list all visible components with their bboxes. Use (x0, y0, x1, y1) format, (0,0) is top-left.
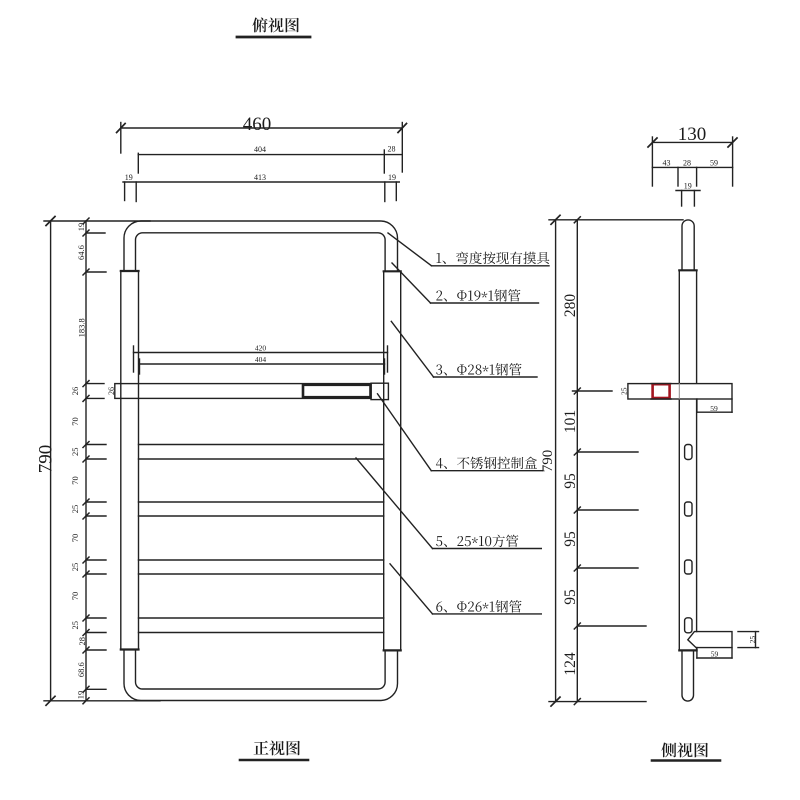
callout 4 leader (378, 394, 432, 471)
dim 413 text (254, 173, 266, 182)
dim 460 right slash arrow (398, 124, 407, 133)
side view bottom joint cap (679, 649, 696, 651)
svg-text:19: 19 (125, 173, 133, 182)
svg-text:183.8: 183.8 (77, 318, 87, 337)
side chain ticks (573, 391, 647, 626)
tick 19 left inner (135, 182, 137, 202)
callout 2 text (436, 289, 520, 301)
side dim 130 text (678, 124, 707, 145)
callout 6 leader (390, 564, 433, 614)
title top view 俯视图 (252, 17, 299, 32)
side bracket dim 25 vertical line (755, 632, 757, 648)
left bottom extension line (44, 700, 160, 702)
side view wide tube right line lower (696, 648, 698, 651)
side slot rung 2 (685, 445, 692, 460)
svg-text:59: 59 (711, 650, 719, 659)
side dim 59 under bar text (710, 404, 718, 413)
front view frame outer tube outline bottom (124, 650, 398, 701)
callout 5 text (436, 535, 518, 548)
svg-text:460: 460 (243, 114, 272, 135)
rung 4 bottom line (139, 573, 384, 575)
left 790 top slash arrow (46, 217, 55, 226)
side view thin tube bottom with rounded cap (682, 650, 694, 701)
front left tube phi28 left line (120, 271, 122, 650)
left top extension line (44, 220, 150, 222)
dim 19 right text (388, 173, 396, 182)
dim 19 left text (125, 173, 133, 182)
svg-text:404: 404 (254, 145, 266, 154)
front left tube top joint cap (121, 270, 139, 272)
svg-text:28: 28 (77, 637, 87, 646)
title front view 正视图 (254, 741, 300, 756)
side bracket dim 59 left vertical (696, 648, 698, 658)
front view frame inner tube outline top (136, 233, 386, 271)
side dim 130 right slash (728, 138, 737, 147)
callout 5 underline (433, 548, 542, 550)
control box front view (303, 385, 371, 397)
svg-text:19: 19 (76, 223, 86, 232)
dim 420 left tick (133, 346, 135, 372)
callout 3 underline (434, 376, 538, 378)
svg-text:95: 95 (562, 589, 579, 605)
title underline side (652, 759, 720, 762)
side view bar square tube (628, 384, 732, 399)
dim 404 inner line (140, 363, 385, 365)
side dim 19 text (684, 182, 692, 191)
svg-text:64.6: 64.6 (76, 245, 86, 260)
rung 4 top line (139, 559, 384, 561)
side dim 130 right extension (732, 137, 734, 186)
svg-text:19: 19 (684, 182, 692, 191)
side dim 59 text (710, 159, 718, 168)
svg-text:95: 95 (562, 473, 579, 489)
callout 2 underline (431, 302, 539, 304)
svg-text:101: 101 (562, 410, 579, 433)
tick 19 right inner (384, 182, 386, 202)
dim 404 left extension (137, 153, 139, 173)
side view top joint cap (679, 269, 696, 271)
callout 2 leader (392, 263, 431, 303)
side slot rung 5 (685, 618, 692, 633)
side view wide tube left line (678, 270, 680, 650)
bar right end cap (371, 383, 388, 399)
rung 2 bottom line (139, 458, 384, 460)
dim 420 line (134, 352, 388, 354)
left chain line (85, 221, 87, 701)
svg-text:25: 25 (70, 448, 80, 457)
dim 460 left slash arrow (117, 124, 126, 133)
front view frame outer tube outline top (124, 221, 398, 271)
side dim 28 text (683, 159, 691, 168)
rung 5 bottom line (139, 632, 384, 634)
dim 404 inner text (255, 355, 267, 364)
dim 26 bar label (107, 387, 116, 395)
bar top line over red box (651, 383, 671, 385)
dim 460 text (243, 114, 272, 135)
svg-text:404: 404 (255, 355, 267, 364)
title underline top (237, 36, 310, 39)
rung 3 top line (139, 501, 384, 503)
side bracket dim 59 bottom line (697, 657, 732, 659)
tick 19 left outer (124, 182, 126, 201)
callout 1 text (436, 252, 549, 265)
side 790 top slash arrow (551, 215, 560, 224)
callout 1 underline (432, 265, 550, 267)
side bracket dim 25 extension bottom (738, 647, 759, 649)
side bracket dim 59 text (711, 650, 719, 659)
side dim 19 line (676, 190, 700, 192)
side dim 59 under bar bottom line (697, 411, 732, 413)
side bottom extension line (549, 701, 646, 703)
svg-text:28: 28 (683, 159, 691, 168)
svg-text:59: 59 (710, 404, 718, 413)
side chain line (576, 220, 578, 702)
left chain slash marks (83, 218, 89, 704)
callout 6 text (436, 600, 521, 612)
front view frame inner tube outline bottom (136, 650, 386, 690)
dim 404 line (138, 154, 402, 156)
left chain ticks (86, 233, 106, 689)
left overall dim 790 line (50, 221, 52, 701)
side dim 19 right tick (693, 191, 695, 207)
dim 420 text (255, 344, 267, 353)
side dim 130 left extension (651, 137, 653, 186)
callout 4 underline (431, 470, 542, 472)
callout 1 leader (388, 233, 432, 266)
side chain slash marks (574, 217, 580, 705)
side dim 130 left slash (648, 138, 657, 147)
side overall dim 790 line (555, 220, 557, 702)
tick 19 right outer (395, 182, 397, 201)
side bracket dim 59 right vertical (731, 648, 733, 658)
bar bottom line over red box (651, 398, 671, 400)
dim 404 text (254, 145, 266, 154)
svg-text:790: 790 (36, 445, 57, 474)
dim 420 right tick (387, 346, 389, 372)
svg-text:43: 43 (663, 159, 671, 168)
dim 19-413-19 line (123, 181, 399, 183)
side 790 text (540, 450, 556, 473)
callout 3 text (436, 363, 521, 375)
side dim 59 under bar right vertical (696, 399, 698, 412)
svg-text:59: 59 (710, 159, 718, 168)
title underline front (240, 759, 308, 762)
svg-text:25: 25 (70, 621, 80, 630)
side tick 678 (677, 167, 679, 186)
side 790 bottom slash arrow (551, 697, 560, 706)
front right tube phi28 left line (383, 271, 385, 650)
rung 2 top line (139, 444, 384, 446)
side view thin tube top with rounded cap (682, 220, 694, 270)
side tick 696.6 (696, 167, 698, 186)
svg-text:19: 19 (76, 691, 86, 700)
side view tube line crossing bar (678, 384, 680, 399)
side dim 59 under bar right edge (731, 399, 733, 412)
control box side view red (653, 384, 670, 398)
svg-text:70: 70 (70, 534, 80, 543)
svg-text:25: 25 (70, 563, 80, 572)
side slot rung 3 (685, 502, 692, 516)
front left tube phi28 right line (138, 271, 140, 650)
title side view 侧视图 (661, 742, 708, 757)
svg-text:70: 70 (70, 417, 80, 426)
side chain labels (562, 294, 579, 676)
callout 4 text (436, 457, 537, 469)
dim 460 left extension (120, 123, 122, 154)
front right tube bottom joint cap (384, 649, 401, 651)
front right tube top joint cap (384, 270, 401, 272)
side dim 25 bar label (620, 387, 629, 395)
side dim 43-28-59 line (652, 166, 732, 168)
rung 3 bottom line (139, 515, 384, 517)
rung 5 top line (139, 617, 384, 619)
svg-text:26: 26 (107, 387, 116, 395)
dim 404 inner right tick (384, 359, 386, 374)
svg-text:68.6: 68.6 (76, 662, 86, 677)
side bracket dim 25 text (748, 636, 757, 644)
dim 404 inner left tick (139, 359, 141, 374)
svg-text:280: 280 (562, 294, 579, 318)
side dim 43 text (663, 159, 671, 168)
left chain labels (70, 223, 87, 700)
callout 6 underline (433, 613, 542, 615)
svg-text:70: 70 (70, 592, 80, 601)
svg-text:420: 420 (255, 344, 267, 353)
callout 3 leader (391, 321, 433, 377)
svg-text:26: 26 (70, 387, 80, 396)
side dim 19 left tick (681, 191, 683, 207)
front right tube phi28 right line (400, 271, 402, 650)
svg-text:124: 124 (562, 652, 579, 676)
side view wide tube right line upper (696, 270, 698, 631)
left 790 bottom slash arrow (46, 696, 55, 705)
dim 460 line (121, 127, 403, 129)
bar square tube 25x10 outline (115, 384, 371, 399)
dim 404 right extension (383, 150, 385, 173)
dim 28 text (388, 145, 396, 154)
side bottom bracket outline (688, 632, 732, 648)
side slot rung 4 (685, 560, 692, 574)
svg-text:25: 25 (70, 505, 80, 514)
side bracket dim 25 extension top (738, 631, 759, 633)
left 790 text (36, 445, 57, 474)
svg-text:413: 413 (254, 173, 266, 182)
front left tube bottom joint cap (121, 648, 139, 650)
svg-text:28: 28 (388, 145, 396, 154)
side top extension line (549, 219, 683, 221)
svg-text:70: 70 (70, 476, 80, 485)
callout 5 leader (356, 458, 433, 549)
dim 460 right extension (401, 123, 403, 173)
side dim 130 line (652, 141, 732, 143)
svg-text:95: 95 (562, 531, 579, 547)
svg-text:790: 790 (540, 450, 556, 473)
svg-text:19: 19 (388, 173, 396, 182)
svg-text:25: 25 (748, 636, 757, 644)
svg-text:25: 25 (620, 387, 629, 395)
